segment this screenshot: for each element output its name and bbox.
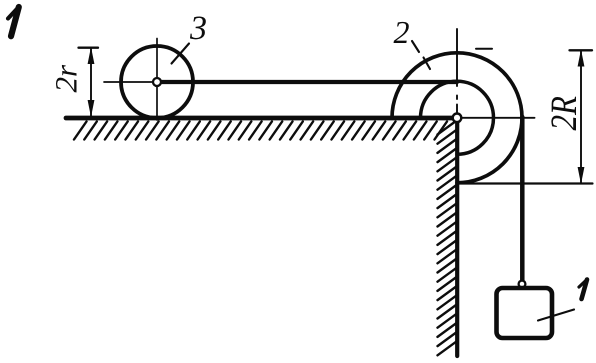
wall edge: [455, 120, 459, 356]
pulley 2 outer rim: [392, 53, 522, 183]
pulley 2 horizontal centerline: [461, 117, 535, 119]
label 1 (weight): [579, 280, 587, 287]
wheel 3 horizontal centerline: [104, 81, 157, 83]
svg-text:2r: 2r: [49, 64, 84, 93]
svg-text:3: 3: [189, 10, 207, 47]
pulley 2 hub: [453, 114, 462, 123]
wheel 3 vertical centerline: [156, 39, 158, 121]
svg-text:2: 2: [394, 14, 410, 50]
leader to label 3: [172, 44, 190, 64]
wheel 3 hub: [153, 78, 161, 86]
ring on weight: [519, 281, 526, 288]
weight block 1: [497, 288, 553, 338]
leader to label 1: [538, 310, 574, 321]
dimension 2r arrow up: [88, 50, 94, 64]
leader to label 2 (dashed): [412, 41, 430, 69]
table top edge: [66, 116, 459, 121]
dimension 2R arrow up: [578, 52, 584, 66]
dimension 2R line: [580, 51, 582, 184]
table hatching: [74, 122, 447, 140]
dimension 2r top cap: [79, 47, 99, 49]
dimension 2r arrow down: [88, 101, 94, 115]
svg-text:2R: 2R: [542, 96, 584, 131]
cord from wheel 3 to pulley 2: [157, 80, 457, 84]
pulley 2 vertical centerline (dash-dot): [456, 29, 458, 113]
dimension 2r line: [90, 48, 92, 116]
wheel 3 rim: [121, 46, 193, 118]
cord to weight 1: [520, 117, 525, 281]
wall hatching: [438, 121, 457, 355]
extension tick at top of pulley 2: [476, 48, 492, 50]
dimension 2R bottom extension line: [457, 182, 593, 184]
dimension 2R top cap: [570, 49, 593, 51]
pulley 2 inner rim: [421, 81, 494, 154]
dimension 2R arrow down: [578, 168, 584, 182]
figure number 1: [8, 7, 19, 18]
